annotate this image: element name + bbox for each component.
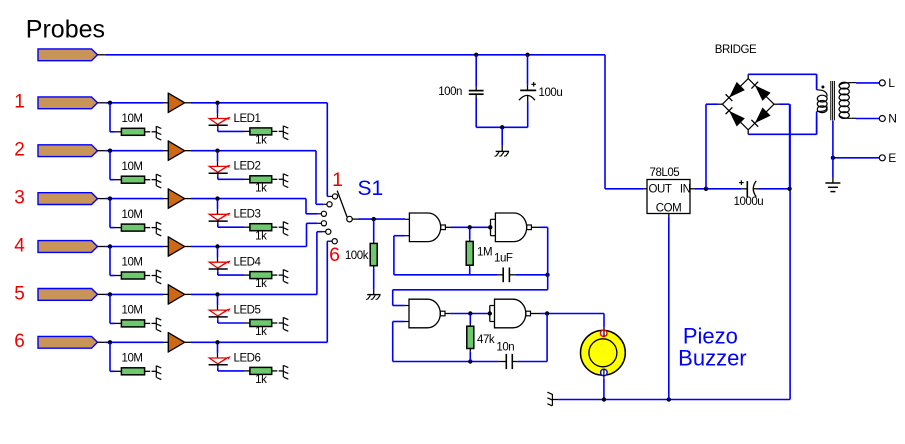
svg-text:Probes: Probes (26, 16, 105, 44)
svg-text:2: 2 (14, 140, 25, 161)
svg-text:1uF: 1uF (494, 252, 513, 264)
svg-text:L: L (888, 76, 895, 90)
svg-text:6: 6 (329, 244, 340, 266)
svg-text:Buzzer: Buzzer (678, 346, 746, 371)
svg-text:IN: IN (680, 183, 691, 195)
svg-text:OUT: OUT (649, 183, 672, 195)
svg-text:1: 1 (332, 169, 343, 191)
svg-text:LED3: LED3 (234, 209, 261, 221)
svg-text:LED4: LED4 (234, 257, 262, 269)
svg-text:1k: 1k (255, 278, 267, 290)
svg-text:LED5: LED5 (234, 304, 261, 316)
svg-text:3: 3 (14, 188, 25, 209)
svg-text:1: 1 (14, 92, 25, 113)
svg-text:10M: 10M (122, 209, 143, 221)
svg-text:1k: 1k (255, 135, 267, 147)
svg-text:47k: 47k (477, 334, 495, 346)
svg-text:E: E (888, 151, 896, 165)
svg-text:1M: 1M (477, 247, 492, 259)
svg-text:4: 4 (14, 235, 25, 256)
svg-text:10n: 10n (496, 341, 514, 353)
svg-text:10M: 10M (122, 305, 143, 317)
svg-text:1k: 1k (255, 326, 267, 338)
svg-text:100n: 100n (438, 86, 462, 98)
svg-text:1k: 1k (255, 182, 267, 194)
svg-text:100k: 100k (345, 250, 369, 262)
svg-text:10M: 10M (122, 161, 143, 173)
svg-text:1k: 1k (255, 230, 267, 242)
svg-text:1000u: 1000u (734, 196, 764, 208)
svg-text:100u: 100u (539, 87, 563, 99)
svg-text:10M: 10M (122, 113, 143, 125)
svg-text:N: N (888, 112, 896, 126)
svg-text:S1: S1 (358, 177, 384, 200)
svg-text:10M: 10M (122, 353, 143, 365)
svg-text:LED1: LED1 (234, 113, 261, 125)
svg-text:6: 6 (14, 331, 25, 352)
svg-text:COM: COM (656, 203, 681, 215)
svg-text:LED6: LED6 (234, 352, 261, 364)
svg-text:LED2: LED2 (234, 161, 261, 173)
svg-text:5: 5 (14, 283, 25, 304)
svg-text:78L05: 78L05 (650, 167, 680, 179)
svg-text:10M: 10M (122, 257, 143, 269)
svg-text:BRIDGE: BRIDGE (715, 44, 757, 56)
svg-text:1k: 1k (255, 374, 267, 386)
